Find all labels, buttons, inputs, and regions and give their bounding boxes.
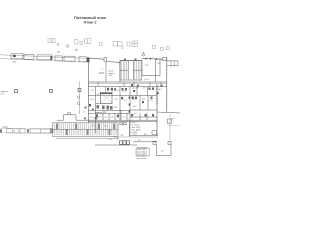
elevator diagonals bbox=[100, 92, 112, 103]
shaft top vent ticks bbox=[124, 59, 137, 61]
bottom-right terrace U bbox=[153, 141, 171, 155]
top marker boxes row bbox=[48, 39, 169, 51]
main block outer walls bbox=[89, 57, 181, 135]
upper-left wing walls bbox=[0, 55, 89, 62]
svg-text:17,2: 17,2 bbox=[145, 65, 149, 67]
window ticks top wall bbox=[146, 58, 157, 61]
svg-text:13,1: 13,1 bbox=[90, 99, 94, 101]
elevator shaft bbox=[100, 92, 112, 103]
right small box bbox=[167, 114, 180, 141]
right balcony top bbox=[167, 61, 178, 66]
main block interior upper bbox=[89, 58, 167, 87]
courtyard label bbox=[1, 91, 9, 96]
bump tick bbox=[68, 113, 71, 115]
lower hall hatch bbox=[54, 123, 117, 135]
svg-text:Этаж 2: Этаж 2 bbox=[83, 19, 97, 24]
svg-text:3,2: 3,2 bbox=[124, 100, 127, 102]
bottom three squares bbox=[120, 141, 130, 145]
lower-left wing walls bbox=[0, 129, 53, 134]
bottom-left text table bbox=[132, 122, 141, 134]
staircase shaft bbox=[120, 61, 142, 81]
svg-text:д.7: д.7 bbox=[172, 118, 175, 120]
svg-text:14,2: 14,2 bbox=[104, 126, 108, 128]
extra interior marks bbox=[96, 85, 163, 117]
wing labels bbox=[13, 50, 79, 64]
svg-text:5,1 м: 5,1 м bbox=[145, 79, 150, 81]
svg-text:12,6: 12,6 bbox=[109, 75, 113, 77]
staircase treads bbox=[122, 61, 140, 80]
svg-text:2,1: 2,1 bbox=[83, 112, 86, 114]
wc fixtures row bbox=[97, 105, 113, 110]
lower hall bump outline bbox=[57, 115, 92, 120]
svg-text:12,1: 12,1 bbox=[133, 114, 137, 116]
svg-text:1,4: 1,4 bbox=[90, 117, 93, 119]
svg-text:9,4: 9,4 bbox=[158, 63, 161, 65]
svg-text:5,9: 5,9 bbox=[109, 139, 112, 141]
vent boxes right of hall bbox=[120, 123, 126, 125]
svg-text:23,8: 23,8 bbox=[99, 72, 104, 75]
stamp text block bbox=[137, 147, 148, 158]
bottom labels bbox=[109, 134, 147, 142]
svg-text:кух. 8,9: кух. 8,9 bbox=[132, 88, 138, 90]
svg-text:6,8: 6,8 bbox=[142, 99, 145, 101]
corridor walls bbox=[89, 103, 158, 137]
svg-text:30,2: 30,2 bbox=[133, 106, 137, 108]
courtyard wall line bbox=[79, 81, 81, 114]
svg-text:8,3: 8,3 bbox=[144, 134, 147, 136]
svg-text:лоджии: лоджии bbox=[2, 127, 8, 129]
svg-text:7,2: 7,2 bbox=[143, 88, 146, 90]
svg-text:37,9: 37,9 bbox=[97, 94, 101, 96]
svg-text:7,5: 7,5 bbox=[138, 140, 141, 142]
svg-text:75,2: 75,2 bbox=[133, 134, 137, 136]
svg-text:5,2: 5,2 bbox=[91, 90, 94, 92]
svg-text:5,5: 5,5 bbox=[150, 100, 153, 102]
room plus mark bbox=[99, 68, 104, 76]
svg-text:коридор 21,6: коридор 21,6 bbox=[95, 112, 106, 114]
marks right of bump bbox=[84, 107, 97, 120]
upper-left wing rooms bbox=[11, 54, 87, 62]
wing dark boxes bbox=[0, 129, 53, 133]
corridor door ticks bbox=[98, 82, 161, 122]
hall darker cells bbox=[56, 124, 115, 135]
svg-text:8,8: 8,8 bbox=[115, 99, 118, 101]
svg-text:2,9: 2,9 bbox=[98, 117, 101, 119]
svg-text:6,1: 6,1 bbox=[117, 90, 120, 92]
lower hall outer bbox=[50, 123, 118, 139]
svg-text:выс. 3,05 м: выс. 3,05 м bbox=[137, 156, 147, 158]
middle band rooms bbox=[89, 87, 158, 136]
svg-text:2,8: 2,8 bbox=[111, 117, 114, 119]
wing room dark cores bbox=[13, 55, 89, 62]
svg-text:13,4: 13,4 bbox=[122, 91, 126, 93]
railing ticks right wall bbox=[156, 88, 159, 103]
svg-text:3,6: 3,6 bbox=[117, 117, 120, 119]
title bbox=[74, 15, 107, 24]
svg-text:2,6: 2,6 bbox=[121, 135, 124, 137]
svg-text:кор.: кор. bbox=[114, 107, 118, 109]
benchmark flag bbox=[142, 52, 145, 56]
svg-text:3,1: 3,1 bbox=[105, 117, 108, 119]
svg-text:2,7: 2,7 bbox=[123, 117, 126, 119]
bath fixtures bbox=[89, 84, 159, 113]
bottom terrace lines bbox=[95, 131, 158, 146]
lower-left wing rooms bbox=[7, 128, 51, 133]
courtyard axis squares bbox=[15, 89, 82, 93]
room labels scatter bbox=[90, 63, 162, 128]
svg-text:16,3: 16,3 bbox=[158, 89, 162, 91]
stair label block bbox=[109, 71, 116, 78]
